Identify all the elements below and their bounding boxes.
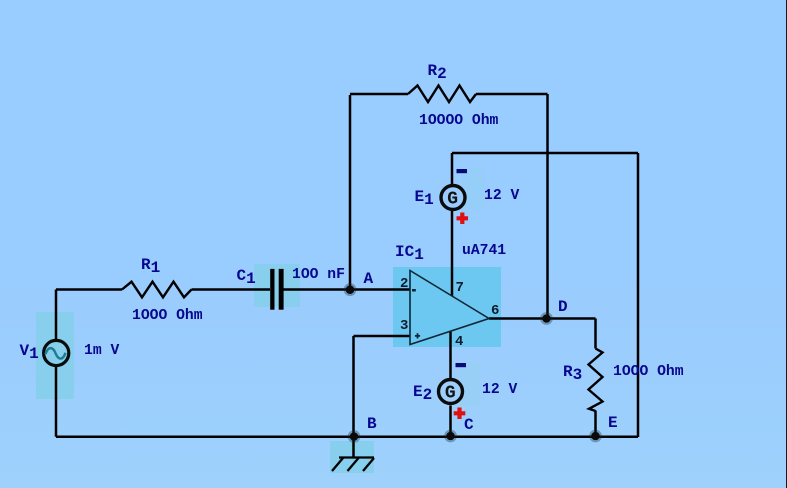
svg-text:G: G [447, 189, 458, 209]
svg-text:G: G [445, 384, 456, 404]
